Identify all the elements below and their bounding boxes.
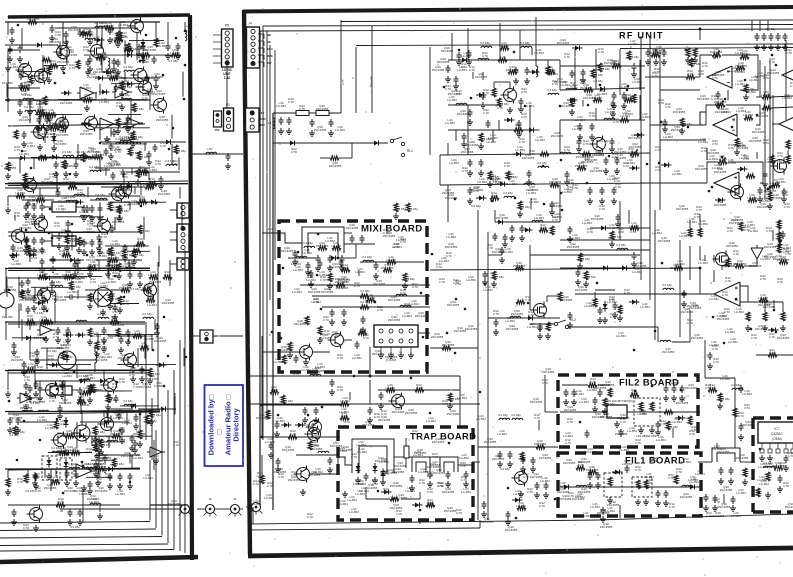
resistor xyxy=(651,53,660,57)
ground xyxy=(663,395,669,401)
label xyxy=(575,285,588,292)
label xyxy=(151,72,164,79)
resistor R59 vertical xyxy=(308,441,312,450)
capacitor xyxy=(34,381,39,389)
wire xyxy=(97,290,99,308)
label xyxy=(766,226,772,233)
label xyxy=(104,161,114,168)
wire xyxy=(17,71,47,73)
ground xyxy=(467,198,473,204)
wire xyxy=(91,435,152,437)
label xyxy=(142,312,152,316)
wire xyxy=(740,302,765,312)
label xyxy=(89,497,99,504)
capacitor C30 xyxy=(646,49,651,57)
resistor R11 vertical xyxy=(546,66,550,75)
ground xyxy=(39,247,45,253)
label xyxy=(390,503,403,510)
varactor D62 xyxy=(373,463,378,474)
wire xyxy=(627,411,634,413)
label xyxy=(580,83,593,90)
wire xyxy=(99,202,101,227)
wire xyxy=(106,245,149,247)
capacitor C22 xyxy=(604,157,609,165)
ground xyxy=(97,513,103,519)
ground xyxy=(17,56,23,62)
ground xyxy=(734,149,740,155)
label xyxy=(51,446,61,450)
wire xyxy=(594,292,596,298)
label xyxy=(54,295,67,302)
wire xyxy=(19,158,21,174)
ground xyxy=(329,389,335,395)
resistor R69b vertical xyxy=(24,474,28,483)
resistor inside2 xyxy=(644,480,648,489)
label xyxy=(168,59,178,63)
capacitor C31 xyxy=(654,49,659,57)
board outline FIL2 BOARD xyxy=(558,375,698,447)
ground xyxy=(225,163,231,169)
label xyxy=(448,89,461,96)
label IC5 xyxy=(59,228,69,235)
label xyxy=(783,481,789,488)
resistor xyxy=(777,220,781,229)
frame border left-block bottom edge xyxy=(0,557,198,562)
label xyxy=(769,348,775,355)
label xyxy=(340,396,350,403)
wire xyxy=(679,240,681,337)
label xyxy=(264,493,274,500)
wire xyxy=(35,114,63,116)
resistor R61 vertical xyxy=(520,452,524,461)
ground xyxy=(87,339,93,345)
ground xyxy=(643,499,649,505)
label xyxy=(513,489,523,496)
label xyxy=(687,69,693,76)
node xyxy=(119,429,122,432)
label xyxy=(749,261,762,268)
label xyxy=(119,76,129,83)
wire xyxy=(143,217,145,240)
label xyxy=(599,204,605,211)
wire xyxy=(27,469,29,478)
capacitor xyxy=(111,172,116,180)
label xyxy=(172,159,178,166)
wire xyxy=(85,289,123,291)
label xyxy=(545,65,555,72)
wire xyxy=(337,253,339,258)
wire xyxy=(448,129,540,131)
label xyxy=(31,253,37,260)
resistor R72 vertical xyxy=(766,472,770,481)
label xyxy=(128,47,138,51)
wire xyxy=(559,60,561,90)
label xyxy=(584,301,594,308)
diode D10 xyxy=(495,220,506,225)
filter L75 dashed xyxy=(632,477,652,497)
ground xyxy=(589,134,595,140)
capacitor C44 xyxy=(783,33,788,41)
capacitor xyxy=(114,84,119,92)
label xyxy=(80,403,90,407)
node xyxy=(139,60,142,63)
ground xyxy=(25,288,31,294)
wire xyxy=(266,31,268,420)
diode xyxy=(124,185,135,190)
inductor L5 vertical xyxy=(273,118,275,129)
transistor Q9 2SC3356 xyxy=(512,470,528,487)
ground xyxy=(595,482,601,488)
label xyxy=(743,110,753,117)
ground xyxy=(153,83,159,89)
ground xyxy=(59,392,65,398)
svg-text:AI7: AI7 xyxy=(267,61,272,65)
label xyxy=(607,174,617,181)
ground xyxy=(81,485,87,491)
wire xyxy=(698,461,712,463)
wire xyxy=(672,341,690,343)
capacitor C16 xyxy=(612,92,617,100)
label xyxy=(155,159,161,166)
transistor Q37 2SA1046 xyxy=(101,377,117,394)
crystal filter P3 xyxy=(607,405,627,418)
label xyxy=(86,255,99,262)
capacitor C88b xyxy=(729,467,734,475)
label xyxy=(306,423,316,427)
wire xyxy=(96,127,150,129)
label xyxy=(37,365,43,372)
resistor R90 vertical xyxy=(688,228,692,237)
resistor xyxy=(117,205,121,214)
ground xyxy=(617,315,623,321)
label xyxy=(288,97,294,104)
resistor xyxy=(117,263,121,272)
ground xyxy=(125,126,131,132)
label xyxy=(68,462,78,466)
inductor L71 xyxy=(400,305,411,307)
wire xyxy=(28,84,30,91)
label xyxy=(34,311,44,315)
svg-text:DIM: DIM xyxy=(267,54,273,58)
ground xyxy=(645,59,651,65)
wire xyxy=(492,130,494,142)
ground xyxy=(130,141,136,147)
wire xyxy=(258,33,264,35)
wire xyxy=(46,348,48,359)
label xyxy=(147,300,157,307)
ground xyxy=(95,480,101,486)
wire xyxy=(157,262,159,410)
ground xyxy=(537,325,543,331)
resistor xyxy=(69,281,73,290)
resistor xyxy=(148,368,152,377)
ground xyxy=(327,467,333,473)
svg-text:PLL-5M: PLL-5M xyxy=(2,315,13,319)
label xyxy=(8,62,18,69)
ground xyxy=(408,352,414,358)
ground xyxy=(115,128,121,134)
wire xyxy=(111,83,142,85)
label xyxy=(396,235,406,242)
wire xyxy=(41,347,63,349)
capacitor C51 xyxy=(294,355,299,363)
label xyxy=(560,80,570,87)
diode inside2 xyxy=(64,459,69,470)
label xyxy=(291,259,301,266)
resistor R71 vertical xyxy=(743,468,747,477)
wire xyxy=(322,306,430,308)
label xyxy=(104,21,114,28)
ground xyxy=(23,404,29,410)
label xyxy=(299,104,305,111)
pin box xyxy=(776,449,780,453)
wire xyxy=(124,72,126,81)
label xyxy=(534,439,547,446)
label xyxy=(57,446,70,453)
inductor xyxy=(82,467,93,469)
wire xyxy=(55,452,92,454)
wire xyxy=(30,359,36,361)
capacitor C30b xyxy=(500,247,505,255)
label xyxy=(776,177,786,184)
wire xyxy=(76,240,84,242)
resistor xyxy=(108,293,112,302)
capacitor xyxy=(51,256,56,264)
wire xyxy=(440,183,650,185)
ground xyxy=(481,511,487,517)
label xyxy=(655,165,661,172)
wire xyxy=(260,29,793,31)
wire xyxy=(91,436,93,446)
label xyxy=(64,164,74,168)
label xyxy=(164,270,170,277)
inductor xyxy=(25,110,36,112)
ground xyxy=(17,109,23,115)
label xyxy=(377,305,383,312)
label xyxy=(747,193,757,200)
label xyxy=(735,48,745,55)
label xyxy=(335,125,345,132)
capacitor C78 xyxy=(498,451,503,459)
label xyxy=(85,373,95,380)
ground xyxy=(534,492,540,498)
diode D31 vertical xyxy=(141,53,146,64)
label xyxy=(360,327,366,334)
label xyxy=(115,489,125,496)
label xyxy=(402,311,412,318)
diode xyxy=(97,379,108,384)
label xyxy=(607,297,617,304)
label xyxy=(702,61,708,68)
ground xyxy=(743,94,749,100)
label xyxy=(316,104,329,111)
wire xyxy=(100,55,102,65)
wire xyxy=(77,144,79,160)
label xyxy=(764,252,777,259)
wire xyxy=(782,302,784,312)
wire xyxy=(488,317,560,319)
zener D55 xyxy=(778,237,783,248)
ground xyxy=(5,391,11,397)
label xyxy=(34,333,47,340)
wire xyxy=(8,267,150,269)
ground xyxy=(615,221,621,227)
node xyxy=(401,153,404,156)
capacitor xyxy=(153,144,158,152)
label xyxy=(620,111,630,118)
wire xyxy=(339,157,352,159)
node xyxy=(162,74,165,77)
label xyxy=(63,429,76,436)
inductor L45 vertical xyxy=(95,352,97,363)
diode D52 xyxy=(737,167,748,172)
wire xyxy=(409,456,412,458)
wire xyxy=(530,323,554,325)
node xyxy=(116,381,119,384)
diode xyxy=(34,126,45,131)
wire xyxy=(261,336,263,437)
label xyxy=(756,111,769,118)
label xyxy=(168,499,181,506)
inductor T2 shielded coil xyxy=(352,439,394,473)
wire xyxy=(105,245,138,247)
wire xyxy=(213,62,221,64)
wire xyxy=(173,422,175,431)
capacitor xyxy=(126,115,131,123)
inductor L38 xyxy=(660,340,671,342)
capacitor xyxy=(102,337,107,345)
label xyxy=(37,73,47,80)
label xyxy=(154,336,167,343)
label xyxy=(55,30,61,37)
wire xyxy=(699,246,701,260)
ground xyxy=(602,317,608,323)
resistor xyxy=(546,70,555,74)
label xyxy=(93,67,106,74)
diode xyxy=(61,451,72,456)
svg-text:D4251C: D4251C xyxy=(771,432,783,436)
label xyxy=(52,294,58,301)
capacitor C125 xyxy=(40,237,45,245)
capacitor C101 xyxy=(10,27,15,35)
connector CN4 xyxy=(177,258,189,270)
resistor xyxy=(145,415,149,424)
label xyxy=(567,242,580,249)
label xyxy=(383,469,389,476)
label xyxy=(68,25,81,32)
capacitor C126 xyxy=(82,239,87,247)
inductor xyxy=(95,26,106,28)
wire xyxy=(47,276,102,278)
wire xyxy=(136,33,138,60)
label xyxy=(128,132,134,139)
label xyxy=(568,178,574,185)
resistor R55 xyxy=(358,331,367,335)
wire xyxy=(40,359,58,361)
label xyxy=(87,147,100,154)
svg-text:Through: Through xyxy=(369,76,373,88)
ground xyxy=(583,281,589,287)
wire xyxy=(429,47,431,113)
transistor xyxy=(53,116,69,133)
wire xyxy=(258,47,264,49)
ground xyxy=(603,168,609,174)
wire xyxy=(148,172,150,180)
label xyxy=(139,382,152,389)
label xyxy=(83,157,93,161)
label xyxy=(92,35,102,42)
resistor R47b xyxy=(96,56,105,60)
capacitor xyxy=(20,280,25,288)
wire xyxy=(734,445,736,448)
resistor R94 vertical xyxy=(781,312,785,321)
wire xyxy=(149,460,151,521)
ground xyxy=(87,271,93,277)
label xyxy=(672,169,682,176)
label xyxy=(90,277,96,284)
ground xyxy=(65,228,71,234)
inductor xyxy=(86,467,97,469)
resistor R57 xyxy=(288,435,297,439)
wire xyxy=(380,347,382,352)
ground xyxy=(467,170,473,176)
wire xyxy=(273,112,341,114)
filter module L81 dashed xyxy=(634,398,660,426)
label xyxy=(529,197,539,204)
ground xyxy=(571,399,577,405)
capacitor xyxy=(64,31,69,39)
capacitor xyxy=(616,214,621,222)
ground xyxy=(44,126,50,132)
wire xyxy=(178,158,180,171)
label xyxy=(562,187,572,194)
resistor xyxy=(140,346,149,350)
capacitor C127 xyxy=(90,239,95,247)
label xyxy=(385,468,398,475)
ground xyxy=(115,69,121,75)
wire xyxy=(560,486,700,488)
amp xyxy=(40,325,52,335)
wire xyxy=(44,206,52,208)
inductor L60 xyxy=(318,451,329,453)
diode xyxy=(715,198,726,203)
label xyxy=(637,409,647,416)
label xyxy=(515,145,525,152)
label xyxy=(360,300,370,304)
ground xyxy=(577,134,583,140)
svg-text:J6: J6 xyxy=(60,509,64,513)
ground xyxy=(60,65,66,71)
label xyxy=(390,481,403,488)
capacitor xyxy=(85,205,90,213)
transistor xyxy=(16,62,32,79)
wire xyxy=(455,130,457,141)
label xyxy=(777,333,790,340)
ground xyxy=(87,397,93,403)
resistor R40 xyxy=(28,20,37,24)
capacitor C123 xyxy=(24,237,29,245)
ground xyxy=(317,337,323,343)
wire xyxy=(756,152,758,159)
inductor L12 xyxy=(456,103,467,105)
capacitor xyxy=(58,405,63,413)
wire xyxy=(262,404,340,406)
label xyxy=(65,50,78,57)
wire xyxy=(7,50,9,64)
label xyxy=(598,47,604,54)
wire xyxy=(756,354,793,356)
ground xyxy=(393,213,399,219)
